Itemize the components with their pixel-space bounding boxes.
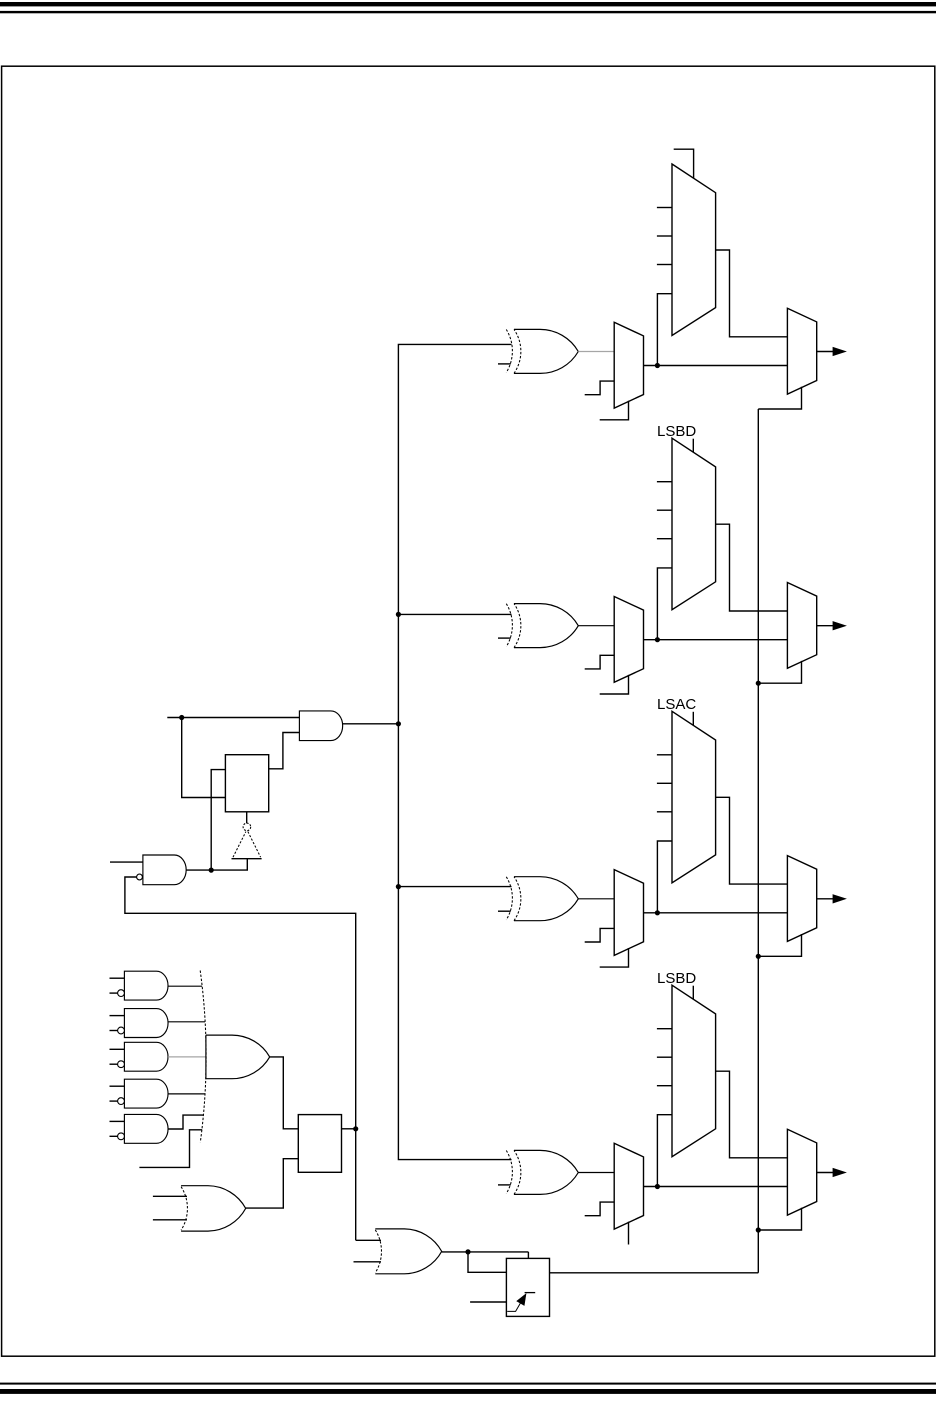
node mux M2 output junction: [655, 637, 660, 642]
wire A4 top input stub: [110, 1015, 125, 1017]
wire left vertical bus from XOR1 input down to XOR4 input: [398, 344, 511, 1159]
wire OR3 output to B3: [442, 1251, 529, 1253]
wire A1 output to bus: [343, 723, 399, 725]
wire mux U1 output down to output mux O1: [716, 250, 788, 337]
wire A6 inverted input stub: [110, 1100, 118, 1102]
mux M1 2:1: [614, 322, 643, 408]
wire select bus to flip-flop B3 output: [550, 1272, 759, 1274]
and gate A3: [124, 971, 168, 1000]
node select bus tap row 2: [756, 681, 761, 686]
wire junction up into mux U4 low input: [657, 1115, 672, 1187]
node mux M1 output junction: [655, 363, 660, 368]
node OR3 output junction: [465, 1249, 470, 1254]
pin ticks mux U4 inputs: [657, 1028, 672, 1030]
wire output arrow of O2: [817, 625, 834, 627]
wire XOR1 output to mux M1: [578, 351, 614, 353]
wire mux M4 output to output mux O4: [644, 1186, 788, 1188]
wire entry at top of mux U1: [674, 149, 694, 178]
wire mux M2 output to output mux O2: [644, 639, 788, 641]
wire junction up into mux U3 low input: [657, 841, 672, 913]
wire branch down to B1 lower input: [182, 718, 226, 798]
xor gate X3: [514, 877, 578, 921]
pin tick top of mux U4: [692, 986, 694, 1000]
wire output arrow of O4: [817, 1172, 834, 1174]
wire A6 output to OR1 arc: [168, 1093, 205, 1095]
wire mux M4 select step: [585, 1202, 615, 1216]
svg-text:LSBD: LSBD: [657, 423, 696, 440]
xor gate X2: [514, 604, 578, 648]
bubble on A4 lower input: [118, 1027, 125, 1034]
wire A3 inverted input stub: [110, 992, 118, 994]
wire select of O4 from bus: [758, 1208, 801, 1230]
wire B1 output to A1 lower input: [269, 733, 300, 769]
bubble on A2 lower input: [137, 874, 143, 880]
wire A3 top input stub: [110, 977, 125, 979]
wire junction up into mux U1 low input: [657, 294, 672, 366]
or gate OR2: [181, 1186, 246, 1231]
wire output arrow of O1: [817, 351, 834, 353]
wire mux M4 lower stub: [628, 1222, 630, 1245]
and gate A6: [124, 1079, 168, 1108]
xor gate X1: [514, 329, 578, 373]
and gate A4: [124, 1009, 168, 1038]
wire mux M3 lower stub: [600, 948, 629, 967]
bubble of N1: [243, 823, 251, 831]
output mux O4 2:1: [787, 1129, 816, 1215]
wire mux M2 lower stub: [600, 675, 629, 694]
wire branch to XOR3: [398, 886, 511, 888]
wire N1 input from A2 output: [186, 859, 247, 871]
node select bus tap row 4: [756, 1227, 761, 1232]
wire A3 output to OR1 arc: [168, 985, 202, 987]
wire A7 output step to OR1 arc: [168, 1115, 203, 1129]
and gate A1: [299, 711, 342, 741]
wire select of O3 from bus: [758, 934, 801, 956]
flip-flop B2: [298, 1115, 341, 1173]
wire external input step to OR1 arc: [139, 1130, 202, 1168]
wire A4 output to OR1 arc: [168, 1021, 205, 1023]
bubble on A3 lower input: [118, 990, 125, 997]
wire mux U3 output down to output mux O3: [716, 797, 788, 884]
node A2 output junction: [209, 868, 214, 873]
svg-text:LSBD: LSBD: [657, 970, 696, 987]
wire OR2 output to B2 lower input: [246, 1159, 299, 1208]
wire A1 top input: [167, 717, 299, 719]
pin ticks mux U2 inputs: [657, 481, 672, 483]
node on bus at XOR3 branch: [396, 884, 401, 889]
wire junction down to B3 D input: [468, 1252, 506, 1272]
mux M4 2:1: [614, 1143, 643, 1229]
wire branch to XOR2: [398, 613, 511, 615]
wire A5 output to OR1 arc: [168, 1056, 206, 1058]
bubble on A5 lower input: [118, 1061, 125, 1068]
bubble on A7 lower input: [118, 1133, 125, 1140]
and gate A2 with inverted input: [143, 855, 186, 885]
wire A7 top input stub: [110, 1120, 125, 1122]
node mux M3 output junction: [655, 910, 660, 915]
wire XOR1 lower input stub: [498, 363, 511, 365]
or gate OR1 body: [206, 1035, 270, 1079]
wire B1 upper input from NAND A2 output: [211, 770, 225, 871]
wire A4 inverted input stub: [110, 1030, 118, 1032]
output mux O3 2:1: [787, 856, 816, 942]
wire mux M1 lower stub: [600, 401, 629, 420]
flip-flop B1: [225, 755, 268, 812]
wire A2 top input: [110, 861, 143, 863]
wire mux M3 select step: [585, 928, 615, 942]
mux M3 2:1: [614, 870, 643, 956]
wire mux M3 output to output mux O3: [644, 912, 788, 914]
wire A5 top input stub: [110, 1048, 125, 1050]
wire A7 inverted input stub: [110, 1135, 118, 1137]
inverter N1: [232, 858, 262, 860]
wire select of O2 from bus: [758, 661, 801, 683]
wire XOR3 output to mux M3: [578, 898, 614, 900]
and gate A7: [124, 1114, 168, 1143]
wire OR3 output into B3 top: [527, 1252, 529, 1259]
wire mux M1 output to output mux O1: [644, 365, 788, 367]
wire OR2 top input stub: [153, 1195, 187, 1197]
or gate OR1 wide input arc: [200, 971, 206, 1143]
xor gate X4: [514, 1150, 578, 1194]
node select bus tap row 3: [756, 954, 761, 959]
wire B3 clock input: [470, 1301, 506, 1303]
wire OR3 top input from vertical net: [356, 1239, 381, 1241]
pin ticks mux U1 inputs: [657, 207, 672, 209]
mux U4 4:1 tall: [672, 985, 716, 1156]
wire select of O1 from bus: [758, 387, 801, 409]
output mux O1 2:1: [787, 308, 816, 394]
wire A6 top input stub: [110, 1085, 125, 1087]
wire XOR2 output to mux M2: [578, 625, 614, 627]
pin tick top of mux U2: [692, 439, 694, 453]
node on vertical net at B2 output: [353, 1126, 358, 1131]
wire XOR4 lower input stub: [498, 1184, 511, 1186]
wire OR2 bottom input stub: [153, 1219, 187, 1221]
node A1 input branch: [179, 715, 184, 720]
or gate OR3: [375, 1229, 441, 1274]
wire mux M2 select step: [585, 655, 615, 669]
wire junction up into mux U2 low input: [657, 568, 672, 640]
wire B2 output to vertical net: [342, 1128, 356, 1130]
wire XOR2 lower input stub: [498, 637, 511, 639]
and gate A5: [124, 1042, 168, 1071]
clock edge symbol in B3: [507, 1300, 522, 1312]
mux M2 2:1: [614, 597, 643, 683]
mux U2 4:1 tall: [672, 438, 716, 610]
node mux M4 output junction: [655, 1184, 660, 1189]
wire mux M1 select step: [585, 381, 615, 395]
wire output arrow of O3: [817, 898, 834, 900]
wire OR1 output to B2: [270, 1057, 299, 1129]
wire mux U4 output down to output mux O4: [716, 1071, 788, 1158]
wire OR3 bottom input stub: [354, 1261, 382, 1263]
wire A2 inverted input from below: [125, 877, 356, 1240]
node on bus at XOR2 branch: [396, 612, 401, 617]
wire XOR3 lower input stub: [498, 910, 511, 912]
flip-flop B3 edge-triggered: [506, 1258, 549, 1316]
wire mux U2 output down to output mux O2: [716, 524, 788, 611]
pin tick top of mux U3: [692, 712, 694, 726]
wire select bus vertical: [757, 409, 759, 1273]
mux U3 4:1 tall: [672, 711, 716, 883]
wire XOR4 output to mux M4: [578, 1172, 614, 1174]
svg-text:LSAC: LSAC: [657, 696, 696, 713]
output mux O2 2:1: [787, 583, 816, 669]
wire A5 inverted input stub: [110, 1063, 118, 1065]
node on bus at AND A1 output: [396, 721, 401, 726]
wire N1 output up to B1 clock: [246, 812, 248, 824]
pin ticks mux U3 inputs: [657, 754, 672, 756]
bubble on A6 lower input: [118, 1098, 125, 1105]
mux U1 4:1 tall: [672, 164, 716, 336]
